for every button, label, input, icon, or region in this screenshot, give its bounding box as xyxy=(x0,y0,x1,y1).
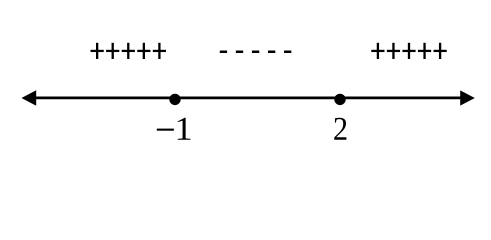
left positive region signs xyxy=(91,43,166,59)
minus sign M5 xyxy=(284,51,291,54)
label -1 : digit 1 xyxy=(178,118,191,140)
plus sign L1 xyxy=(91,43,104,59)
point at -1 xyxy=(169,94,180,105)
plus sign L3 xyxy=(122,43,135,59)
plus sign R1 xyxy=(371,43,384,59)
label 2 xyxy=(334,118,346,140)
plus sign R3 xyxy=(402,43,415,59)
plus sign R2 xyxy=(387,43,400,59)
minus sign M4 xyxy=(268,51,275,54)
plus sign L2 xyxy=(106,43,119,59)
label -1 : minus sign xyxy=(157,129,174,131)
point at 2 xyxy=(334,94,345,105)
minus sign M1 xyxy=(220,51,227,54)
plus sign L4 xyxy=(137,43,150,59)
plus sign R4 xyxy=(418,43,431,59)
middle negative region signs xyxy=(220,51,292,54)
right arrowhead xyxy=(460,90,475,105)
plus sign L5 xyxy=(153,43,166,59)
left arrowhead xyxy=(22,90,37,105)
plus sign R5 xyxy=(434,43,447,59)
number line shaft xyxy=(33,97,463,100)
minus sign M2 xyxy=(236,51,243,54)
right positive region signs xyxy=(371,43,446,59)
minus sign M3 xyxy=(252,51,259,54)
